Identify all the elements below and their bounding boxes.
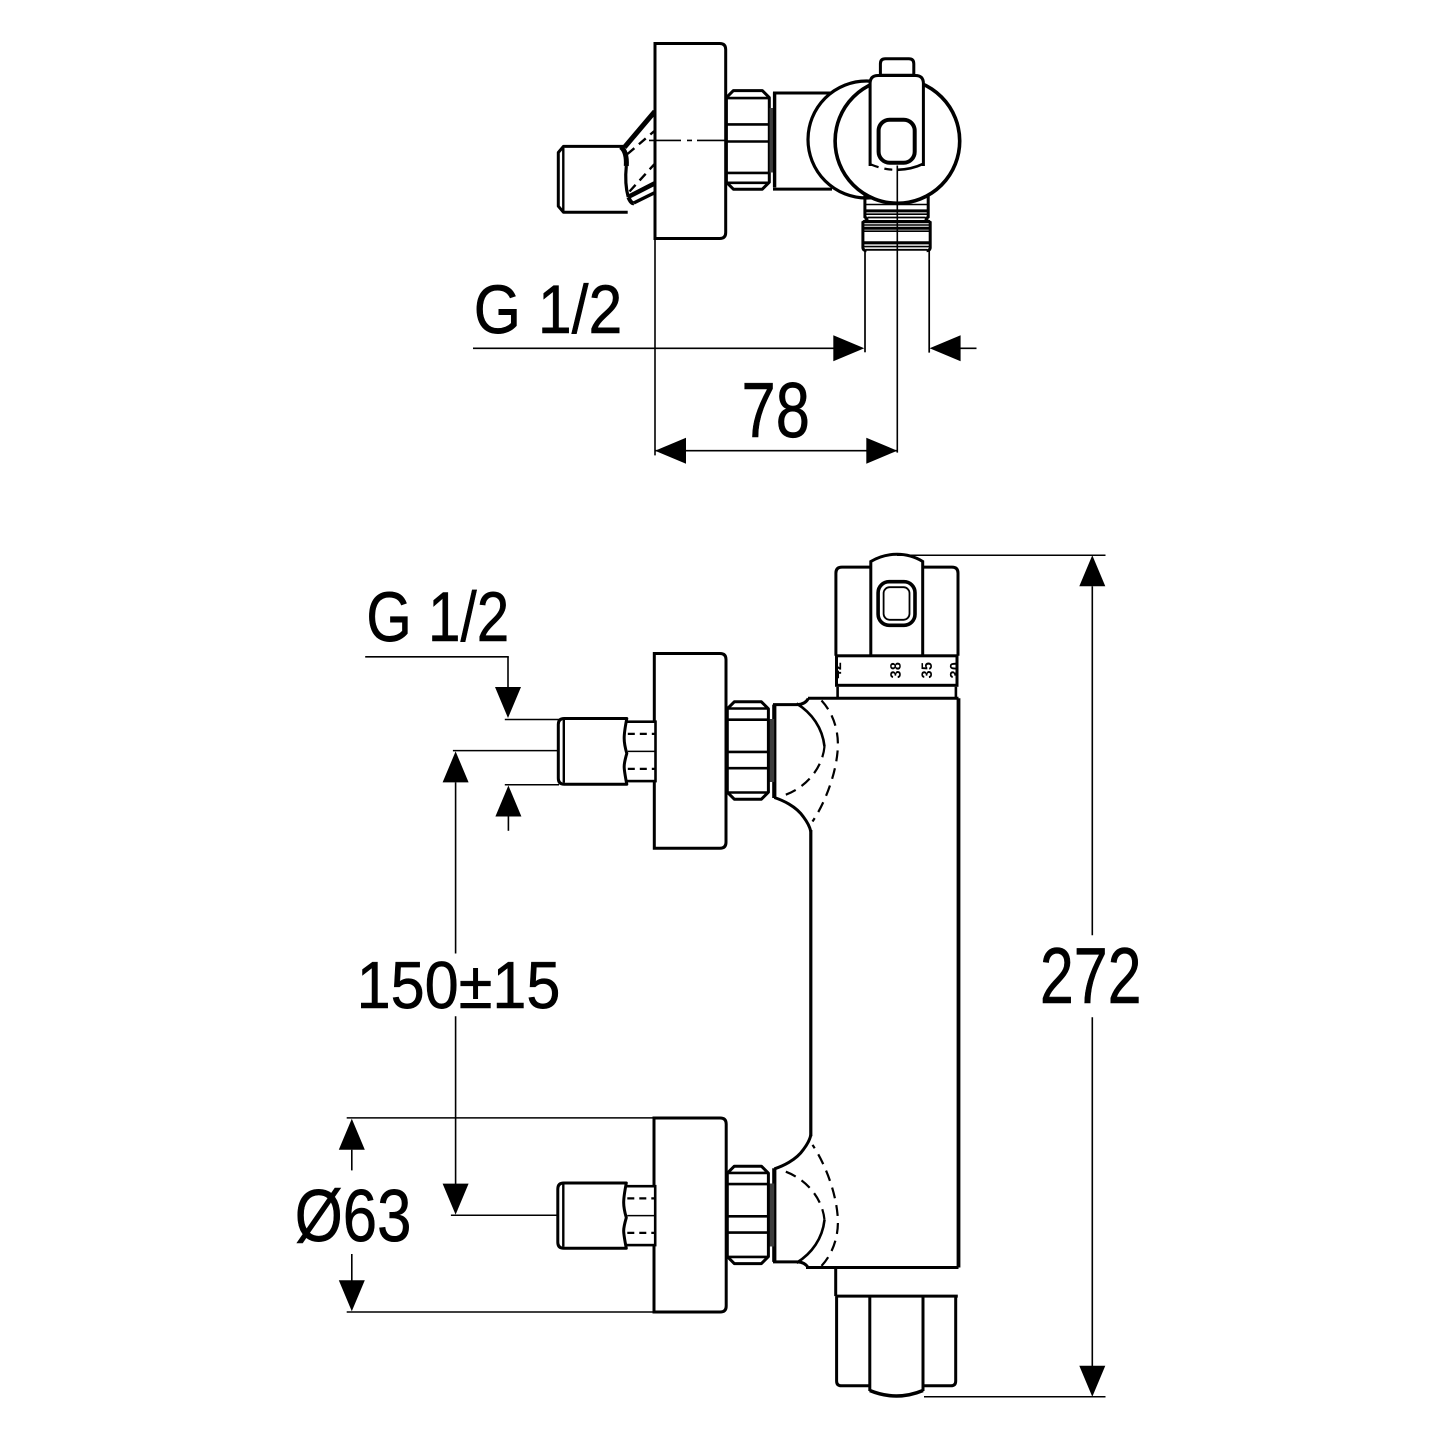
temperature scale ring (front view) [831, 656, 961, 686]
lower union nut (front view) [727, 1166, 768, 1263]
ring lower band (front view) [838, 687, 956, 699]
lower inlet elbow (front view) [773, 1135, 838, 1268]
svg-text:Ø63: Ø63 [295, 1174, 412, 1257]
outlet nut (front view) [837, 1296, 956, 1396]
dimension 272 (front view) [897, 555, 1142, 1396]
bottom collar (front view) [836, 1268, 958, 1297]
lower washer separator (front view) [770, 1184, 775, 1247]
centerline (top view vertical) [896, 166, 898, 453]
dimension 150±15 (front view) [357, 751, 561, 1216]
svg-text:272: 272 [1040, 931, 1142, 1020]
dimension Ø63 (front view) [295, 1118, 655, 1312]
lever arm (top view) [625, 112, 656, 204]
svg-text:G 1/2: G 1/2 [366, 577, 509, 656]
upper inlet elbow (front view) [773, 699, 838, 832]
lever knob (top view) [558, 146, 634, 212]
svg-text:78: 78 [742, 366, 810, 454]
dimension G 1/2 (front view) [365, 577, 559, 831]
outlet thread stack (top view) [863, 195, 930, 251]
valve body (top view) [773, 92, 832, 189]
upper washer separator (front view) [770, 719, 775, 782]
svg-text:G 1/2: G 1/2 [474, 271, 623, 348]
upper union nut (front view) [727, 702, 768, 799]
valve body dome (top view) [808, 81, 925, 198]
temperature knob circle (top view) [835, 79, 960, 204]
grip band (top view) [870, 76, 923, 170]
safety button (top view) [879, 120, 915, 163]
svg-text:150±15: 150±15 [357, 949, 561, 1023]
temperature knob (front view) [836, 554, 958, 656]
upper inlet pipe cap (front view) [593, 722, 656, 781]
lower inlet pipe cap (front view) [592, 1186, 655, 1245]
centerline (top view horizontal) [649, 139, 727, 141]
outlet pipe (top view) [865, 251, 929, 353]
mixer body column (front view) [806, 698, 959, 1267]
dimension G 1/2 (top view) [473, 271, 977, 361]
knob tab (top view) [880, 59, 913, 75]
hex union nut (top view) [726, 91, 769, 190]
lower wall plate (front view) [654, 1118, 726, 1312]
dimension 78 (top view) [655, 240, 897, 464]
wall plate (top view) [655, 44, 726, 239]
upper wall plate (front view) [654, 654, 726, 849]
washer separator (top view) [770, 108, 775, 173]
